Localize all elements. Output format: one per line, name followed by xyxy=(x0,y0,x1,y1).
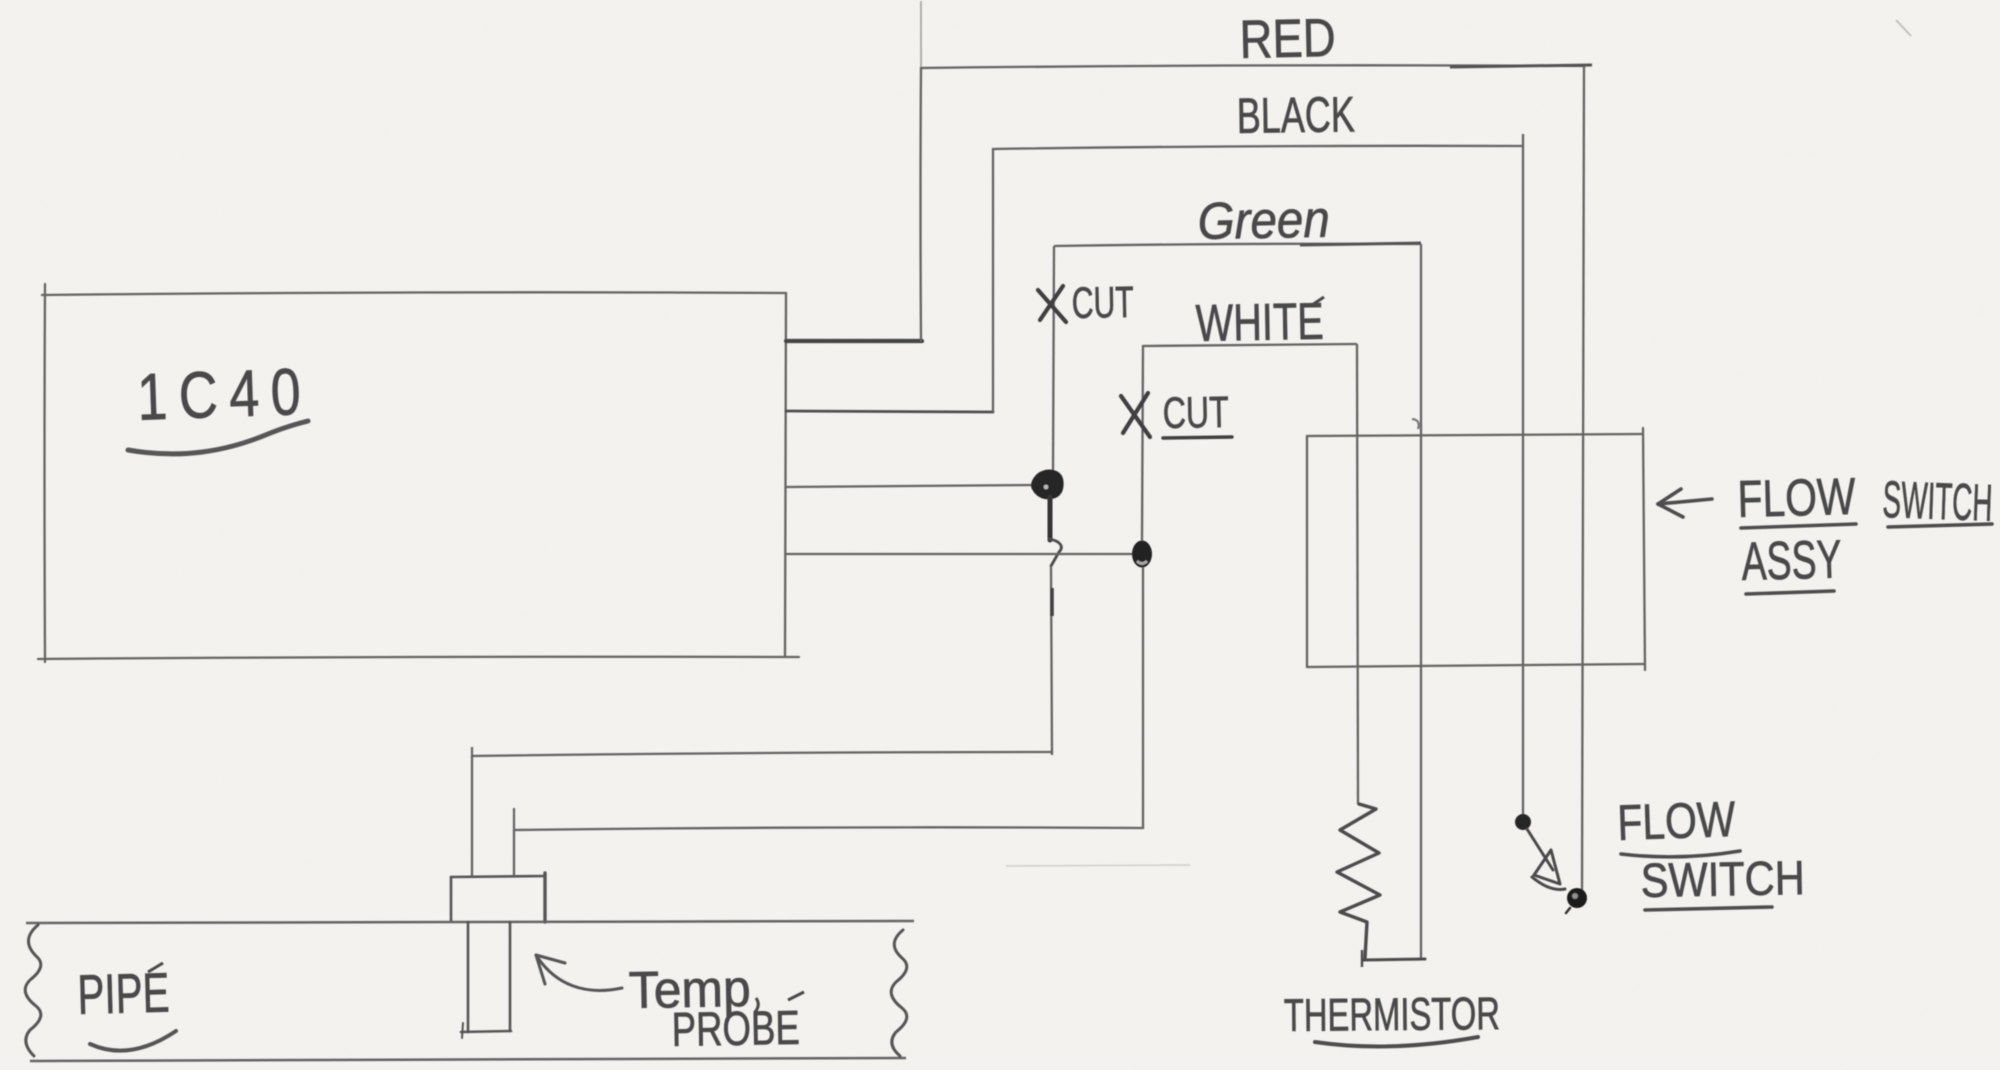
temp probe body below pipe wall xyxy=(461,922,511,1038)
pen curl at green drop top xyxy=(1412,419,1419,429)
wire: IC40 pin1 to red riser xyxy=(786,339,922,343)
wire: faint red riser overshoot to page top xyxy=(920,1,922,67)
cut mark X on white wire xyxy=(1121,393,1150,437)
svg-text:PIPE: PIPE xyxy=(77,961,171,1026)
wire: white lower vertical to probe wire xyxy=(1142,567,1144,829)
temp probe arrow xyxy=(536,955,622,990)
cut mark X on green wire xyxy=(1038,286,1066,322)
wire: GREEN top horizontal xyxy=(1054,244,1421,246)
underline of PIPE xyxy=(90,1031,176,1051)
svg-text:WHITE: WHITE xyxy=(1195,293,1324,353)
flow switch arm xyxy=(1527,829,1553,870)
pipe bottom line xyxy=(30,1058,906,1061)
wire: GREEN drop to thermistor xyxy=(1419,244,1422,959)
underline FLOW (assy) xyxy=(1741,524,1856,528)
comma after Temp xyxy=(755,998,758,1012)
svg-text:FLOW: FLOW xyxy=(1737,468,1856,529)
wire: green lower vertical to probe wire xyxy=(1051,566,1052,755)
wire: IC40 pin2 to black riser xyxy=(786,411,993,412)
IC40 module box U1 xyxy=(38,284,799,662)
wire: white left vertical (cut) xyxy=(1142,345,1143,541)
flow switch open arrowhead xyxy=(1534,850,1560,884)
wire: probe right vertical xyxy=(513,830,515,877)
flow switch assembly box xyxy=(1307,428,1645,670)
junction blob B (pin4 to white) xyxy=(1132,541,1152,568)
thermistor RT1 zigzag xyxy=(1337,804,1380,958)
svg-text:ASSY: ASSY xyxy=(1741,529,1843,592)
junction blob A (pin3 to green) xyxy=(1033,471,1063,498)
tick at probe wire 1 left end xyxy=(471,747,473,758)
svg-text:THERMISTOR: THERMISTOR xyxy=(1284,987,1500,1041)
wire: RED top horizontal xyxy=(921,65,1584,68)
svg-text:CUT: CUT xyxy=(1162,388,1229,438)
accent over WHITE E xyxy=(1312,297,1324,305)
wire: probe left vertical xyxy=(471,756,473,877)
faint stray diagonal top right xyxy=(1896,20,1911,36)
underline SWITCH (assy) xyxy=(1888,524,1992,527)
wire: IC40 pin4 to junction blob B xyxy=(786,553,1133,555)
underline ASSY xyxy=(1746,591,1834,594)
svg-text:1C40: 1C40 xyxy=(136,354,313,434)
flow switch contact blob xyxy=(1567,888,1587,908)
wire: green left vertical (cut) xyxy=(1053,246,1054,473)
temp probe cap body xyxy=(451,873,545,922)
svg-text:SWITCH: SWITCH xyxy=(1640,852,1805,908)
underline of 1C40 xyxy=(128,421,308,454)
accent over PROBE E xyxy=(788,992,804,1000)
svg-text:FLOW: FLOW xyxy=(1616,791,1737,851)
wire: IC40 pin3 to junction blob A xyxy=(786,485,1037,487)
wire: probe wire 2 horizontal xyxy=(514,827,1143,830)
underline THERMISTOR xyxy=(1315,1037,1478,1046)
flow switch pivot dot xyxy=(1515,814,1531,830)
wire: WHITE drop to thermistor xyxy=(1357,344,1358,804)
faint stray pencil line xyxy=(1006,865,1190,866)
wire break squiggle on green vertical xyxy=(1049,539,1061,566)
wire: WHITE top horizontal xyxy=(1143,344,1357,346)
pipe right break squiggle xyxy=(891,930,907,1056)
svg-text:PROBE: PROBE xyxy=(671,1002,800,1057)
wire: RED drop to flow switch xyxy=(1582,66,1584,896)
svg-text:RED: RED xyxy=(1239,8,1336,70)
arrow to flow switch assy xyxy=(1658,489,1712,517)
wire: RED riser vertical xyxy=(919,67,922,341)
thermistor bottom link xyxy=(1363,959,1425,960)
tick at probe wire 2 left end xyxy=(513,808,515,830)
underline SWITCH (switch) xyxy=(1645,907,1772,910)
svg-text:BLACK: BLACK xyxy=(1236,86,1355,144)
accent over PIPE E xyxy=(148,963,163,972)
wire: BLACK riser vertical xyxy=(992,148,994,412)
pipe left break squiggle xyxy=(25,925,41,1056)
thick stub below blob A xyxy=(1048,497,1053,540)
pipe top line xyxy=(26,921,914,923)
svg-text:CUT: CUT xyxy=(1071,278,1134,328)
wire: BLACK top horizontal xyxy=(993,146,1523,149)
wire: BLACK drop to flow switch xyxy=(1521,134,1524,818)
wire: probe wire 1 horizontal xyxy=(472,752,1052,756)
svg-text:Green: Green xyxy=(1197,191,1330,251)
tick at thermistor bottom left xyxy=(1361,950,1363,967)
underline FLOW (switch) xyxy=(1621,851,1740,857)
underline of CUT (white) xyxy=(1163,437,1232,438)
